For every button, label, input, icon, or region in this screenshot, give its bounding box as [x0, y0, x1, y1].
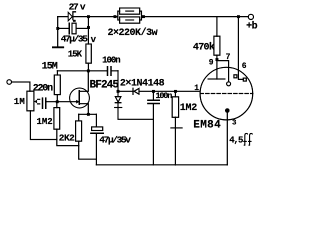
- wire C3 top lead: [152, 91, 154, 99]
- svg-text:9: 9: [209, 58, 214, 67]
- wire C5 bottom to rail: [95, 134, 97, 165]
- wire to 2K2: [78, 114, 80, 121]
- wire drain bus: [57, 70, 118, 72]
- tube V1 EM84 envelope: [200, 67, 253, 120]
- target electrode square right: [243, 78, 246, 81]
- svg-text:BF245: BF245: [90, 79, 120, 91]
- svg-text:2K2: 2K2: [59, 133, 75, 144]
- capacitor C5 47u/35v bottom: [91, 127, 103, 133]
- wire left column to ground: [57, 17, 59, 47]
- resistor R2 220K: [120, 17, 140, 23]
- diode D3 1N4148 horizontal: [133, 88, 139, 94]
- resistor 1M: [27, 91, 34, 111]
- tube anode circle: [227, 82, 231, 86]
- svg-text:27: 27: [69, 2, 79, 13]
- wire source node horizontals: [79, 113, 97, 115]
- svg-text:100n: 100n: [102, 55, 120, 65]
- node dot rail-zener: [87, 15, 90, 18]
- wire gate row: [47, 101, 77, 103]
- wire pin3 column: [226, 111, 228, 165]
- svg-text:v: v: [91, 35, 97, 45]
- node dot 470k bottom: [216, 58, 219, 61]
- wire 1M2L bottom: [57, 129, 79, 145]
- node dot source: [87, 113, 90, 116]
- svg-text:47µ/35: 47µ/35: [61, 33, 89, 44]
- tube grid bar: [208, 78, 225, 80]
- wire 1M bottom to ground run: [30, 111, 56, 140]
- tick below D2: [115, 107, 122, 109]
- svg-text:1: 1: [194, 84, 199, 93]
- wire top rail left: [58, 16, 118, 18]
- wire 470k bottom / grid lead: [216, 55, 218, 79]
- svg-text:4,5: 4,5: [229, 135, 243, 145]
- node dot C3: [152, 90, 155, 93]
- svg-text:+b: +b: [246, 20, 258, 32]
- wire 1M2R top lead: [174, 91, 176, 97]
- node dot +b: [237, 15, 240, 18]
- svg-text:v: v: [80, 2, 86, 13]
- node dot gate: [56, 100, 59, 103]
- capacitor C2 100n top: [108, 67, 112, 76]
- wire 15M stub: [56, 71, 58, 75]
- wire grid bus y91: [118, 90, 200, 92]
- gate arrow of Q1: [76, 100, 79, 104]
- wire 2K2 bottom staircase: [79, 141, 97, 159]
- wire to pin7: [217, 61, 229, 82]
- wire 15K to bus: [87, 63, 89, 71]
- svg-text:47µ/35v: 47µ/35v: [99, 134, 131, 145]
- wire input: [12, 82, 30, 91]
- svg-text:EM84: EM84: [193, 120, 221, 132]
- label ff heater glyphs: [243, 133, 252, 145]
- svg-text:220n: 220n: [33, 83, 53, 94]
- wire bottom rail: [96, 164, 227, 166]
- wire cap row left: [58, 27, 69, 29]
- +b terminal: [248, 14, 253, 19]
- node dot pair right: [142, 15, 145, 18]
- wire pin6: [238, 17, 243, 80]
- Q1 source lead: [80, 104, 88, 115]
- input terminal: [7, 80, 12, 85]
- node dot A: [117, 90, 120, 93]
- wire cap C5 top lead: [95, 114, 97, 127]
- wire below D2 with tick: [118, 103, 153, 165]
- zener D1 27v: [68, 12, 76, 22]
- resistor 15K: [86, 44, 91, 63]
- wire node A column: [117, 71, 119, 97]
- wire cap row right: [76, 27, 88, 29]
- resistor 15M: [54, 75, 60, 95]
- target electrode square left: [234, 75, 237, 78]
- svg-text:1M2: 1M2: [37, 117, 53, 127]
- svg-text:15M: 15M: [42, 62, 58, 73]
- svg-text:1M: 1M: [14, 97, 25, 107]
- ground: [53, 46, 63, 48]
- svg-text:15K: 15K: [68, 50, 83, 60]
- wire 1M2R bottom lead: [174, 117, 176, 165]
- tick below 1M2R: [171, 127, 182, 129]
- svg-text:3: 3: [232, 120, 237, 128]
- tube cathode dot: [225, 108, 230, 113]
- resistor 1M2 left: [54, 108, 60, 130]
- Q1 drain lead: [80, 71, 88, 92]
- capacitor C1 47u/35v: [69, 23, 76, 34]
- capacitor C4 220n: [43, 98, 46, 108]
- input arrow: [34, 100, 37, 104]
- wire top rail right: [142, 16, 249, 18]
- wire 1M2L column: [56, 102, 58, 108]
- svg-text:470k: 470k: [193, 42, 215, 54]
- node dot drain bus: [87, 69, 90, 72]
- capacitor C3 100n vertical: [148, 100, 159, 103]
- resistor pair 2x220K brackets: [115, 8, 142, 23]
- transistor Q1 BF245 circle: [70, 88, 90, 108]
- svg-text:100n: 100n: [156, 91, 173, 101]
- resistor 2K2: [76, 121, 82, 141]
- resistor 470k: [214, 36, 220, 55]
- input arrow dashes: [38, 99, 40, 104]
- Q1 channel bar: [78, 91, 80, 104]
- svg-text:7: 7: [226, 53, 231, 62]
- svg-text:2×220K/3w: 2×220K/3w: [108, 27, 158, 39]
- wire 470k drop: [216, 17, 218, 37]
- wire column x88: [87, 17, 89, 44]
- wire 15M to gate: [56, 95, 58, 102]
- svg-text:1M2: 1M2: [180, 103, 197, 114]
- svg-text:6: 6: [242, 62, 247, 71]
- diode D2 1N4148 vertical: [115, 97, 121, 103]
- node dot pair left: [114, 15, 117, 18]
- svg-text:2×1N4148: 2×1N4148: [120, 78, 165, 89]
- node dot cap row: [87, 26, 90, 29]
- resistor 1M2 right: [172, 97, 178, 118]
- tube screen dashed: [200, 93, 253, 95]
- resistor R1 220K: [120, 8, 140, 14]
- node dot cap row left: [56, 27, 59, 30]
- node dot 1M2R: [174, 90, 177, 93]
